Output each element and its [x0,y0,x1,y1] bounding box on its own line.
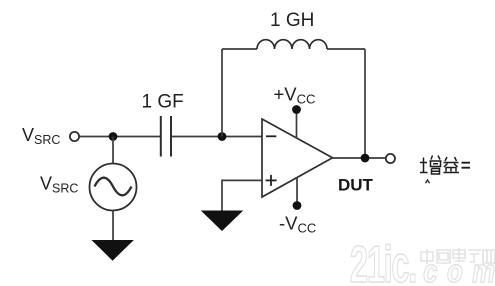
pin - (inverting input mark) [266,135,276,137]
svg-text:com: com [423,254,495,286]
wire: feedback top right [327,48,365,50]
wire: main input wire at y=136 [80,136,263,138]
node +Vcc [292,105,301,114]
small caret mark [426,180,430,183]
wire: feedback left vertical [221,49,223,137]
wire: output [333,157,386,159]
增 left radical 土 [420,158,428,173]
terminal: input open circle [70,132,79,141]
益 top [444,157,459,167]
svg-text:21ic.: 21ic. [350,236,416,286]
wire: +Vcc supply [296,110,298,139]
益 bottom 皿 [444,168,460,173]
wire: feedback right vertical [364,49,366,158]
capacitor C (1 GF) [161,116,171,157]
= sign [462,163,471,168]
watermark 21ic.com 中国电子网 [350,236,495,286]
wire: junction down to source [112,137,114,164]
wire: source to ground [112,211,114,242]
node: junction at source [109,132,118,141]
ground (op-amp + input) [202,211,242,230]
node: output junction [361,154,370,163]
node -Vcc [293,201,302,210]
wire: -Vcc supply [296,178,298,206]
inductor L (1 GH) [257,40,327,49]
op-amp U1 (DUT) [262,119,333,197]
node: feedback junction [218,132,227,141]
增 right part 曾 [430,156,442,175]
pin + (non-inverting input mark) [266,179,277,181]
label 增益= (gain=) drawn as strokes [420,156,470,184]
source VSRC (sine source) [90,164,137,211]
wire: feedback top left [222,48,257,50]
svg-text:DUT: DUT [338,176,374,195]
terminal: output open circle [386,154,395,163]
ground (below source) [93,241,133,261]
svg-text:1 GF: 1 GF [142,92,184,113]
svg-text:1 GH: 1 GH [270,10,314,31]
wire: + input to ground [222,180,262,211]
